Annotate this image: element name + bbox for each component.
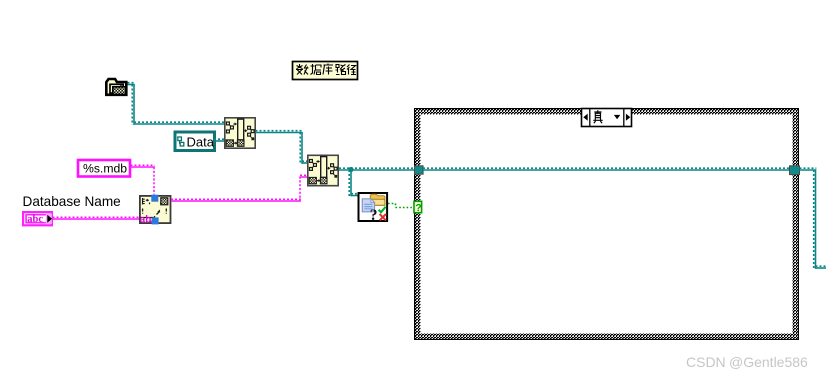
svg-text:%s.mdb: %s.mdb: [83, 161, 127, 175]
gold folder: [370, 194, 385, 205]
case tunnel right (path): [790, 166, 800, 175]
blue document: [362, 199, 374, 212]
diagonal arrow: [157, 212, 160, 215]
svg-text:?: ?: [415, 202, 421, 214]
path constant Data: [175, 132, 215, 151]
label 数据库路径 (Database Path): [293, 62, 358, 80]
Build Path node 2: [308, 155, 338, 185]
glyph 真: [593, 110, 602, 123]
库: [323, 64, 333, 75]
wire W9 Format node to Build Path 2 (string wire): [171, 175, 308, 201]
case selector terminal ?: [414, 201, 422, 214]
quote marks: [150, 203, 165, 205]
wire W4 Build Path 2 to case tunnel with branch (path wire): [339, 168, 415, 196]
blue resize handle top: [151, 195, 158, 202]
wire W7 %s.mdb to Format node (string wire): [131, 165, 155, 194]
wire W2 Data to Build Path 1 (path wire): [214, 139, 225, 141]
green check: [379, 207, 386, 212]
string constant %s.mdb: [78, 160, 130, 177]
watermark CSDN @Gentle586: [686, 354, 808, 370]
Check if File or Folder Exists node: [359, 193, 388, 224]
case selector label 真: [582, 109, 632, 127]
exclamation marks: [143, 209, 167, 214]
hatched square top-right: [161, 198, 168, 205]
Build Path node 1: [225, 118, 255, 148]
wire W8 abc to Format node (string wire): [53, 217, 140, 219]
径: [347, 65, 356, 75]
corner line: [140, 218, 154, 220]
wire W6 right tunnel exiting frame (path wire): [800, 168, 826, 269]
wire W3 Build Path 1 to Build Path 2 (path wire): [256, 131, 308, 164]
svg-text:abc: abc: [27, 214, 43, 225]
svg-text:CSDN: CSDN: [686, 354, 726, 370]
case structure border: [414, 108, 799, 340]
case tunnel left (path): [415, 166, 424, 174]
svg-text:@Gentle586: @Gentle586: [729, 354, 808, 370]
wire W10 exists output to selector terminal (boolean dotted): [388, 204, 414, 208]
数: [296, 64, 309, 75]
据: [311, 64, 322, 75]
label Database Name: [23, 194, 121, 209]
wire W1 folder to Build Path 1 (path wire): [128, 83, 225, 125]
red X: [380, 214, 386, 220]
路: [336, 65, 346, 75]
wire junction: [348, 167, 353, 172]
format list glyph top-left: [143, 198, 145, 205]
path constant folder icon: [106, 79, 126, 95]
wire W5 across case structure (path wire): [423, 168, 790, 170]
svg-text:Data: Data: [187, 134, 215, 149]
Format Into String node: [140, 195, 171, 226]
svg-text:?: ?: [370, 207, 378, 224]
blue resize handle bottom: [152, 217, 159, 224]
string control abc terminal: [23, 212, 52, 225]
svg-text:ab: ab: [140, 215, 151, 226]
svg-text:Database Name: Database Name: [23, 194, 121, 209]
